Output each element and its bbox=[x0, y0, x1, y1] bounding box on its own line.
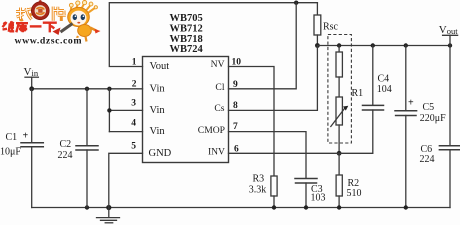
svg-text:Rsc: Rsc bbox=[323, 21, 339, 32]
resistor Rsc bbox=[316, 3, 318, 15]
terminal Vout bbox=[449, 35, 451, 45]
svg-text:+: + bbox=[408, 98, 414, 109]
svg-text:C4: C4 bbox=[378, 73, 390, 84]
svg-text:WB712: WB712 bbox=[170, 23, 203, 34]
node C2 bottom bbox=[85, 205, 89, 209]
node Vin input bbox=[29, 86, 34, 91]
svg-text:104: 104 bbox=[377, 84, 392, 95]
node pin3 tap bbox=[107, 108, 111, 112]
svg-text:9: 9 bbox=[233, 80, 238, 90]
resistor R2 bbox=[338, 153, 340, 175]
wire output rail bbox=[317, 45, 450, 47]
node C5 top bbox=[404, 43, 408, 47]
node R1 top bbox=[337, 43, 341, 47]
wire pin1 Vout to top loop bbox=[109, 3, 317, 67]
ground bbox=[108, 208, 110, 218]
watermark red text wei ku yi xia bbox=[3, 22, 57, 33]
svg-text:Vin: Vin bbox=[150, 83, 166, 94]
svg-text:INV: INV bbox=[208, 146, 225, 157]
capacitor C1 (electrolytic) bbox=[31, 89, 33, 143]
wire pin6 INV to feedback junction bbox=[229, 152, 340, 154]
IC U1 box bbox=[143, 57, 229, 163]
watermark text zhao (found) glyph bbox=[16, 8, 32, 20]
svg-text:10μF: 10μF bbox=[0, 146, 21, 157]
node R2 bottom bbox=[337, 205, 341, 209]
IC pin names right column bbox=[198, 59, 225, 157]
svg-text:220μF: 220μF bbox=[420, 113, 446, 124]
svg-text:Vin: Vin bbox=[150, 126, 166, 137]
wire pin10 NV riser bbox=[229, 67, 275, 177]
watermark logo bbox=[3, 0, 101, 46]
svg-text:R3: R3 bbox=[253, 173, 265, 184]
svg-text:WB724: WB724 bbox=[170, 44, 204, 55]
node feedback junction bbox=[337, 151, 342, 156]
node Vout corner bbox=[448, 43, 452, 47]
resistor R1 (adjustable) bbox=[338, 46, 340, 53]
svg-text:7: 7 bbox=[233, 122, 238, 132]
node C3 bottom bbox=[304, 205, 308, 209]
wire pin8 Cs to output node bbox=[229, 46, 318, 111]
capacitor C5 (electrolytic) bbox=[405, 46, 407, 111]
pin numbers bbox=[131, 58, 241, 155]
svg-text:5: 5 bbox=[131, 141, 136, 151]
svg-text:C1: C1 bbox=[6, 132, 18, 143]
svg-text:4: 4 bbox=[131, 118, 136, 128]
svg-text:NV: NV bbox=[211, 59, 225, 70]
capacitor C6 bbox=[449, 46, 451, 146]
svg-text:8: 8 bbox=[233, 101, 238, 111]
svg-text:Vout: Vout bbox=[439, 24, 458, 36]
capacitor C4 bbox=[372, 46, 374, 106]
node ground tap bbox=[106, 205, 111, 210]
terminal Vin bbox=[25, 76, 38, 78]
svg-text:3.3k: 3.3k bbox=[249, 184, 266, 195]
watermark text pian (chip) glyph bbox=[53, 7, 66, 22]
IC part numbers WB705 WB712 WB718 WB724 bbox=[170, 13, 204, 55]
node C4 top bbox=[371, 43, 375, 47]
svg-text:Cs: Cs bbox=[214, 103, 224, 114]
svg-text:Vout: Vout bbox=[150, 61, 170, 72]
svg-text:103: 103 bbox=[311, 192, 326, 203]
node C5 bottom bbox=[404, 205, 408, 209]
node junction Rsc bottom / output rail bbox=[315, 43, 320, 48]
wire Vin rail bbox=[32, 88, 143, 90]
svg-text:3: 3 bbox=[131, 98, 136, 108]
wire pin9 Cl to top rail bbox=[229, 3, 297, 89]
svg-text:Cl: Cl bbox=[215, 82, 224, 93]
svg-text:+: + bbox=[23, 131, 29, 142]
svg-text:CMOP: CMOP bbox=[198, 125, 225, 136]
svg-text:224: 224 bbox=[420, 154, 435, 165]
node junction top rail / Cl riser bbox=[294, 1, 298, 5]
node pin3/4 branch bbox=[107, 87, 111, 91]
watermark mascot bbox=[53, 1, 101, 42]
svg-text:Vin: Vin bbox=[150, 105, 166, 116]
wire pins 3 and 4 branch bbox=[108, 89, 110, 132]
svg-text:Vin: Vin bbox=[24, 66, 39, 78]
svg-text:1: 1 bbox=[132, 58, 137, 68]
svg-text:R1: R1 bbox=[352, 88, 364, 99]
wire pin5 GND bbox=[109, 153, 143, 207]
resistor R3 bbox=[271, 176, 277, 196]
watermark badge circle bbox=[31, 2, 49, 20]
svg-text:10: 10 bbox=[232, 58, 242, 68]
svg-text:6: 6 bbox=[234, 145, 239, 155]
svg-text:510: 510 bbox=[347, 188, 362, 199]
wire ground rail bbox=[32, 207, 450, 209]
svg-text:C5: C5 bbox=[423, 102, 435, 113]
dashed box around R1 bbox=[328, 35, 352, 144]
svg-text:WB705: WB705 bbox=[170, 13, 203, 24]
capacitor C3 bbox=[295, 178, 317, 180]
svg-text:www.dzsc.com: www.dzsc.com bbox=[15, 35, 83, 46]
svg-text:2: 2 bbox=[132, 80, 137, 90]
component value labels bbox=[0, 21, 446, 203]
svg-text:GND: GND bbox=[149, 148, 172, 159]
wire pin7 CMOP to C3 bbox=[229, 132, 307, 179]
node R3 bottom bbox=[272, 205, 276, 209]
node C2 top bbox=[85, 87, 89, 91]
IC pin names left column bbox=[149, 61, 172, 159]
svg-text:WB718: WB718 bbox=[170, 34, 203, 45]
svg-text:224: 224 bbox=[58, 150, 73, 161]
svg-text:C2: C2 bbox=[60, 139, 72, 150]
capacitor C2 bbox=[86, 89, 88, 146]
